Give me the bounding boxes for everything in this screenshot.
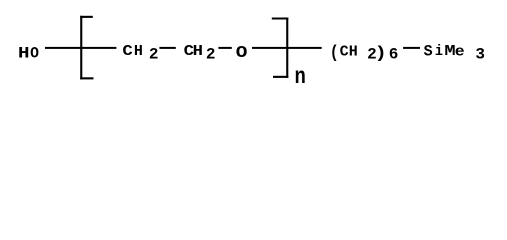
svg-text:O: O [30, 44, 39, 63]
svg-text:H: H [193, 43, 203, 60]
svg-text:e: e [455, 43, 465, 60]
svg-text:): ) [375, 43, 387, 63]
svg-text:2: 2 [206, 46, 216, 64]
svg-text:H: H [349, 44, 358, 61]
svg-text:i: i [435, 44, 443, 61]
svg-text:3: 3 [475, 45, 485, 63]
svg-text:H: H [18, 45, 30, 63]
svg-text:C: C [122, 43, 133, 60]
svg-text:n: n [295, 64, 306, 90]
svg-text:6: 6 [389, 46, 399, 64]
svg-text:S: S [424, 42, 433, 61]
svg-text:C: C [340, 44, 349, 61]
svg-text:H: H [134, 43, 143, 60]
svg-text:2: 2 [149, 46, 159, 64]
svg-text:(: ( [330, 42, 339, 62]
svg-text:O: O [236, 44, 248, 62]
